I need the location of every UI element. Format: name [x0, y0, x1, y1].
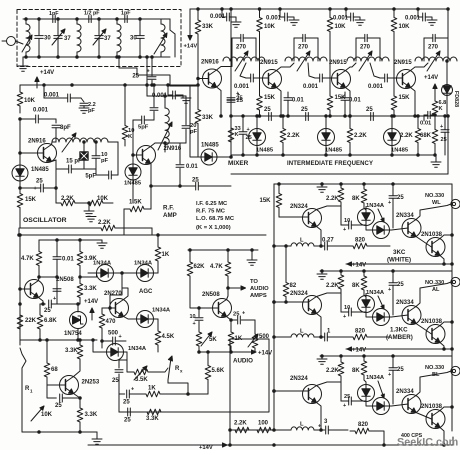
ground decoupling 2: [355, 20, 365, 25]
transistor 2N324 (WL): [290, 204, 322, 228]
svg-text:25: 25: [397, 195, 404, 201]
capacitor 25 IF out: [440, 115, 449, 155]
diode FD828: [442, 60, 453, 116]
node IF top rail: [190, 8, 448, 10]
capacitor 25 det: [112, 352, 127, 412]
resistor 2.2K osc: [57, 196, 79, 206]
svg-text:10K: 10K: [24, 98, 36, 104]
svg-text:10K: 10K: [264, 24, 276, 30]
wire 2N270 base: [110, 303, 116, 308]
svg-text:820: 820: [355, 238, 366, 244]
svg-text:NO.330: NO.330: [425, 193, 444, 199]
diode 1N34A agc b: [134, 261, 156, 282]
svg-text:10: 10: [344, 305, 350, 311]
wire T1 left leg: [231, 60, 232, 62]
svg-text:3.3K: 3.3K: [84, 286, 97, 292]
svg-text:0.001: 0.001: [303, 84, 319, 90]
transistor 2N916 oscillator: [28, 139, 57, 163]
svg-text:BL: BL: [432, 372, 440, 378]
svg-text:2N324: 2N324: [290, 376, 308, 382]
svg-text:2N270: 2N270: [104, 291, 122, 297]
label 37: [64, 36, 71, 42]
svg-text:5.6K: 5.6K: [212, 368, 225, 374]
svg-text:I.F. 6.25 MC: I.F. 6.25 MC: [196, 201, 228, 207]
resistor 3.3K driver: [77, 276, 97, 304]
resistor 8K channel (AL): [352, 271, 367, 295]
svg-text:0.27: 0.27: [322, 238, 334, 244]
wire tuner out down1: [146, 56, 149, 85]
svg-text:25: 25: [441, 137, 447, 143]
label NO.330 (BL): [425, 365, 444, 378]
capacitor 10pF: [84, 142, 109, 169]
label AUDIO: [233, 358, 253, 365]
resistor 3.3K bottom: [141, 409, 167, 422]
svg-text:25: 25: [112, 378, 119, 384]
wire emitter stage 3: [411, 88, 417, 118]
wire agc takeoff: [80, 273, 97, 277]
legend RF: [196, 209, 226, 215]
wire driver collector: [38, 276, 59, 281]
resistor 15K IF stage 1: [257, 40, 276, 117]
potentiometer Rx: [168, 356, 183, 383]
wire 2N334 emitter (WL): [416, 237, 432, 248]
node channel bus vertical: [273, 186, 276, 430]
svg-text:1K: 1K: [162, 252, 170, 258]
connector NO.330 (AL): [451, 277, 460, 286]
svg-text:+: +: [131, 387, 134, 393]
svg-text:62K: 62K: [194, 264, 206, 270]
capacitor 25 out: [123, 387, 140, 406]
capacitor rf a: [150, 84, 158, 120]
resistor 2.2K IF 3: [400, 115, 421, 155]
resistor 2.2K bottom: [231, 421, 253, 433]
wire 2N253 collector: [74, 364, 81, 377]
wire audio out: [119, 393, 125, 395]
svg-text:4.7K: 4.7K: [210, 264, 223, 270]
capacitor 0.01 IF out: [420, 111, 436, 126]
svg-text:33K: 33K: [202, 24, 214, 30]
svg-text:0.01: 0.01: [349, 98, 361, 104]
svg-text:1/2 pF: 1/2 pF: [84, 11, 100, 17]
ground driver: [97, 240, 107, 248]
svg-text:25: 25: [397, 367, 404, 373]
svg-text:0.001: 0.001: [368, 84, 384, 90]
transistor 2N915 Q4: [394, 60, 416, 89]
capacitor 15pF: [56, 159, 84, 174]
capacitor 0.01 driver: [53, 240, 74, 277]
wire 2N334 emitter (BL): [416, 413, 432, 420]
ground channel (BL): [317, 356, 327, 364]
svg-text:AMP: AMP: [163, 212, 177, 219]
svg-text:470: 470: [106, 319, 117, 325]
resistor 15K input (WL): [259, 183, 308, 217]
potentiometer 5K audio: [196, 328, 217, 352]
resistor 3.9K driver: [77, 240, 97, 277]
svg-text:3.3K: 3.3K: [146, 416, 159, 422]
wire driver base: [19, 288, 31, 291]
wire tank2 tap: [308, 63, 315, 78]
transistor 2N915 Q2: [260, 60, 282, 89]
transistor 2N334 (BL): [396, 389, 421, 414]
transistor 2N1038 (BL): [421, 404, 445, 429]
svg-text:10K: 10K: [335, 24, 347, 30]
svg-text:10K: 10K: [399, 24, 411, 30]
svg-text:25: 25: [237, 98, 244, 104]
variable inductor L1: [22, 19, 32, 57]
svg-text:(AMBER): (AMBER): [386, 334, 413, 341]
capacitor 25 mixer base: [227, 90, 243, 116]
wire 2N324 emitter (AL): [317, 314, 323, 339]
wire RF staircase to mixer: [118, 56, 198, 86]
node channel rail (BL): [320, 355, 452, 358]
wire tuner out right: [161, 19, 175, 57]
wire collector stage 1: [277, 63, 295, 71]
diode 1N485 IF 2: [318, 115, 343, 155]
svg-text:10: 10: [190, 314, 196, 320]
capacitor 25 channel (WL): [388, 184, 404, 228]
svg-text:2.2K: 2.2K: [287, 133, 300, 139]
wire 2N1038 emitter (BL): [440, 428, 445, 447]
resistor 15K osc: [17, 188, 36, 213]
wire 2N324 emitter (WL): [317, 227, 323, 248]
svg-text:68: 68: [51, 367, 58, 373]
svg-text:15 pF: 15 pF: [66, 159, 82, 165]
node channel rail (WL): [274, 183, 452, 186]
svg-text:+: +: [440, 124, 443, 130]
diode 1N34A agc c: [124, 308, 171, 328]
legend IF: [196, 201, 228, 207]
svg-text:270: 270: [236, 45, 247, 51]
label INTERMEDIATE FREQUENCY: [287, 161, 373, 167]
svg-text:1K: 1K: [148, 386, 156, 392]
wire to audio amps arrow: [227, 286, 246, 290]
wire rf emitter: [151, 164, 180, 186]
diode 1N485 IF 1: [249, 115, 274, 155]
capacitor 1pF series: [49, 11, 59, 23]
capacitor 0.001 decoupling 3: [405, 8, 432, 22]
capacitor 25 2N253: [47, 384, 81, 409]
svg-text:1N485: 1N485: [391, 148, 409, 154]
resistor 10K osc: [17, 85, 35, 113]
svg-text:pF: pF: [190, 129, 198, 135]
wire 2N324 collector (AL): [317, 293, 342, 297]
svg-text:+: +: [318, 424, 321, 430]
svg-text:FD828: FD828: [453, 91, 459, 107]
node bottom rail mid: [119, 411, 230, 413]
svg-text:15K: 15K: [259, 198, 271, 204]
node channel right edge (AL): [451, 321, 454, 324]
capacitor 8pF: [52, 125, 71, 142]
capacitor 25 audio: [227, 311, 256, 325]
resistor 1.5K rf: [124, 185, 152, 235]
filter network white 3KC: [273, 238, 390, 251]
transistor 2N334 (WL): [396, 213, 421, 238]
capacitor 25 rf out: [180, 178, 231, 191]
svg-text:10K: 10K: [41, 412, 53, 418]
svg-text:2N916: 2N916: [164, 146, 182, 152]
junction: [25, 18, 28, 59]
wire rf base: [132, 131, 143, 164]
svg-text:270: 270: [360, 45, 371, 51]
svg-text:1N485: 1N485: [201, 143, 219, 149]
supply +14V mixer: [184, 28, 198, 50]
svg-text:25: 25: [124, 418, 131, 424]
wire white rail left: [274, 184, 279, 186]
connector NO.330 (BL): [451, 366, 460, 375]
svg-text:AUDIO: AUDIO: [250, 286, 269, 292]
capacitor 500 agc: [101, 331, 126, 349]
potentiometer 500 audio: [248, 320, 270, 352]
potentiometer R1 10K: [20, 348, 53, 432]
label FD828: [453, 91, 459, 107]
capacitor 30pF: [35, 18, 43, 59]
wire audio collector: [227, 288, 229, 300]
svg-text:0.01: 0.01: [420, 121, 432, 127]
wire 2N334 collector (AL): [416, 282, 451, 307]
svg-text:1N34A: 1N34A: [128, 346, 147, 352]
label 400 CPS: [401, 433, 423, 439]
transistor 2N334 (AL): [396, 300, 421, 325]
wire osc base: [19, 119, 44, 164]
label OSCILLATOR: [23, 217, 67, 224]
diode 1N485 osc: [12, 163, 49, 183]
svg-text:1N34A: 1N34A: [152, 308, 171, 314]
svg-text:+: +: [343, 227, 346, 233]
wire legend box: [18, 228, 266, 236]
audio box outline: [230, 339, 269, 443]
svg-text:2N253: 2N253: [82, 380, 100, 386]
capacitor bypass channel (BL): [341, 382, 366, 409]
wire 2N334 base (WL): [392, 228, 409, 230]
node channel right edge (WL): [451, 234, 454, 237]
resistor 10K IF stage 2: [327, 8, 346, 40]
resistor 820 blue: [350, 422, 385, 446]
variable inductor L4: [154, 19, 167, 57]
transistor 2N324 (BL): [290, 376, 322, 404]
node osc top rail: [20, 84, 199, 87]
wire 2N334 collector (WL): [416, 204, 451, 220]
resistor 1K agc: [155, 234, 170, 273]
svg-text:+: +: [388, 287, 391, 293]
transistor 2N916 mixer: [201, 60, 222, 89]
label 1N34A channel (AL): [366, 290, 385, 309]
resistor 5.6K: [205, 351, 225, 394]
capacitor driver bypass: [53, 289, 61, 292]
svg-text:25: 25: [397, 282, 404, 288]
capacitor 5pF: [85, 142, 118, 180]
node IF bottom bus: [231, 154, 435, 157]
diode 1N34A lower (BL): [371, 398, 392, 415]
svg-text:4.7K: 4.7K: [21, 256, 34, 262]
svg-text:+: +: [247, 127, 250, 133]
resistor 6.8K driver: [37, 303, 57, 340]
svg-text:25: 25: [344, 394, 350, 400]
svg-text:+14V: +14V: [84, 299, 98, 305]
ground channel (WL): [317, 184, 327, 192]
capacitor 25 channel (AL): [388, 271, 404, 315]
wire collector stage 3: [411, 63, 429, 71]
svg-text:37: 37: [64, 36, 71, 42]
filter network amber 1.3KC: [273, 329, 390, 342]
svg-text:1N34A: 1N34A: [366, 203, 385, 209]
capacitor 0.001 base stage 3: [368, 74, 403, 90]
wire 2N1038 emitter (WL): [440, 256, 445, 266]
svg-text:2N915: 2N915: [329, 60, 347, 66]
wire tank1 tap: [240, 63, 246, 78]
resistor 2.2K IF 1: [280, 115, 300, 155]
supply +14V IF out: [424, 75, 438, 98]
resistor 15K IF stage 2: [327, 40, 346, 117]
resistor 2.2K IF 2: [347, 115, 367, 155]
diode 1N34A upper (WL): [358, 207, 375, 228]
label NO.330 (WL): [425, 193, 444, 206]
transistor 2N508 driver: [25, 280, 44, 299]
capacitor bypass channel (AL): [341, 293, 366, 320]
svg-text:AL: AL: [432, 287, 440, 293]
svg-text:25: 25: [36, 179, 43, 185]
svg-text:0.001: 0.001: [234, 84, 250, 90]
capacitor 0.01 mixer: [175, 143, 198, 187]
wire 2N1038 collector (WL): [440, 235, 452, 239]
svg-text:82: 82: [290, 283, 297, 289]
svg-text:(WHITE): (WHITE): [387, 257, 411, 264]
capacitor 1pF series second: [121, 11, 131, 23]
svg-text:1N754: 1N754: [64, 331, 82, 337]
diode 1N34A lower (WL): [371, 222, 392, 239]
svg-text:2N1038: 2N1038: [421, 404, 443, 410]
supply +14V audio: [198, 350, 272, 357]
wire diodes join (WL): [366, 226, 371, 231]
svg-text:2.2K: 2.2K: [61, 196, 74, 202]
wire agc bus: [88, 272, 158, 275]
inductor L2: [76, 18, 81, 59]
ground tuner: [18, 57, 28, 71]
label 1N34A channel (WL): [366, 203, 385, 222]
ground mixer top: [231, 22, 241, 27]
ground osc2: [86, 217, 96, 222]
svg-text:2N1038: 2N1038: [421, 319, 443, 325]
capacitor 2.2pF to gnd: [79, 102, 96, 114]
wire rx box: [168, 383, 189, 395]
svg-text:L.O. 68.75 MC: L.O. 68.75 MC: [196, 216, 235, 222]
svg-text:3.9K: 3.9K: [84, 256, 97, 262]
capacitor 10 audio: [190, 308, 204, 328]
svg-text:1.3KC: 1.3KC: [390, 327, 408, 334]
resistor 62K audio: [187, 249, 205, 288]
svg-text:1pF: 1pF: [49, 11, 59, 17]
ground decoupling 1: [289, 20, 299, 25]
svg-text:270: 270: [298, 45, 309, 51]
tuned circuit T4 270: [415, 34, 457, 71]
capacitor 1/2pF series: [84, 11, 100, 23]
node driver rail: [19, 234, 102, 345]
node bottom-most rail: [88, 437, 453, 446]
label 1.3KC AMBER: [386, 327, 413, 342]
capacitor 0.001 base stage 1: [234, 74, 269, 90]
svg-text:25: 25: [233, 312, 240, 318]
wire 2N324 collector (BL): [317, 382, 342, 386]
capacitor 0.001 decoupling 1: [266, 8, 294, 22]
capacitor 0.01 IF b: [341, 92, 361, 117]
supply +14V amber: [346, 334, 453, 354]
wire audio emitter rail: [199, 351, 255, 353]
diode 1N34A lower (AL): [371, 309, 392, 326]
svg-text:820: 820: [355, 329, 366, 335]
capacitor 0.001 decoupling 2: [333, 8, 360, 22]
svg-text:8K: 8K: [352, 283, 360, 289]
svg-text:+: +: [388, 372, 391, 378]
svg-text:270: 270: [428, 45, 439, 51]
ground channel (AL): [317, 271, 327, 279]
capacitor 0.001 osc b: [19, 108, 56, 124]
wire agc to base: [110, 273, 122, 303]
crystal Y1: [80, 142, 88, 169]
resistor 3.3K bias: [65, 340, 83, 364]
capacitor 5pF rf: [133, 116, 154, 131]
capacitor 0.001 mixer top: [210, 8, 236, 21]
resistor 1K out: [140, 386, 208, 397]
resistor 15K IF stage 3: [391, 40, 410, 117]
svg-text:8K: 8K: [352, 196, 360, 202]
svg-text:2N324: 2N324: [290, 204, 308, 210]
resistor 8K channel (WL): [352, 184, 367, 208]
svg-text:25: 25: [366, 107, 373, 113]
svg-text:500: 500: [108, 331, 119, 337]
resistor 1K audio: [228, 320, 243, 352]
svg-text:0.01: 0.01: [186, 164, 198, 170]
svg-text:4.5K: 4.5K: [162, 334, 175, 340]
resistor 2.2K channel (AL): [326, 271, 344, 293]
label 30: [44, 36, 51, 42]
transistor 2N915 Q3: [329, 60, 351, 89]
transistor 2N916 rf amp: [137, 146, 182, 165]
variable capacitor 37pF second: [93, 18, 106, 59]
node bottom-left rail: [22, 431, 97, 434]
wire mixer emitter: [217, 87, 223, 117]
node RF bus bottom: [23, 56, 170, 58]
svg-text:1.5K: 1.5K: [129, 200, 142, 206]
node bottom strip: [229, 429, 291, 432]
transistor 2N1038 (WL): [421, 232, 445, 257]
diode 1N485 mixer: [199, 143, 232, 166]
wire rf tank top: [147, 85, 186, 97]
svg-text:25: 25: [246, 135, 252, 141]
svg-text:OSCILLATOR: OSCILLATOR: [23, 217, 67, 224]
svg-text:100: 100: [258, 421, 269, 427]
svg-text:L: L: [300, 238, 304, 244]
wire IF box bottom: [231, 116, 448, 174]
wire 2N334 base (AL): [392, 315, 409, 317]
wire base bus (BL): [273, 390, 309, 393]
node channel right edge (BL): [451, 406, 454, 409]
diode 1N485 IF 3: [384, 115, 409, 155]
wire mixer base: [197, 77, 209, 80]
svg-text:15K: 15K: [25, 197, 37, 203]
label AGC: [139, 289, 153, 295]
resistor 68K IF out: [420, 118, 438, 156]
svg-text:+: +: [237, 92, 240, 98]
wire mixer rail down: [190, 85, 200, 157]
capacitor 25 driver: [39, 277, 58, 314]
wire 2N1038 collector (BL): [440, 407, 452, 411]
transistor 2N253: [60, 376, 100, 395]
svg-text:2N508: 2N508: [202, 292, 220, 298]
resistor 10K IF stage 1: [257, 8, 276, 40]
ground IF out: [431, 155, 441, 167]
resistor 4.5K: [155, 319, 175, 352]
resistor 22K: [17, 303, 36, 340]
svg-text:+14V: +14V: [258, 351, 272, 357]
